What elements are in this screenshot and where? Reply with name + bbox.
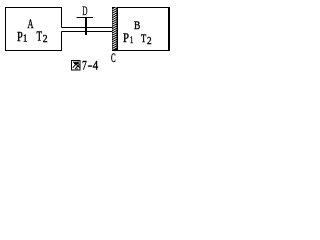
svg-text:T: T [141,31,147,45]
svg-text:7: 7 [82,59,87,73]
svg-text:1: 1 [23,34,27,45]
svg-text:1: 1 [130,35,133,45]
svg-text:D: D [82,4,87,18]
svg-text:2: 2 [43,34,48,45]
svg-text:C: C [111,51,116,65]
svg-text:A: A [28,17,34,31]
svg-text:T: T [37,28,43,43]
svg-text:-: - [88,58,93,72]
svg-text:P: P [123,31,129,45]
svg-text:B: B [134,18,140,32]
svg-text:2: 2 [147,36,152,47]
svg-text:4: 4 [93,59,98,73]
